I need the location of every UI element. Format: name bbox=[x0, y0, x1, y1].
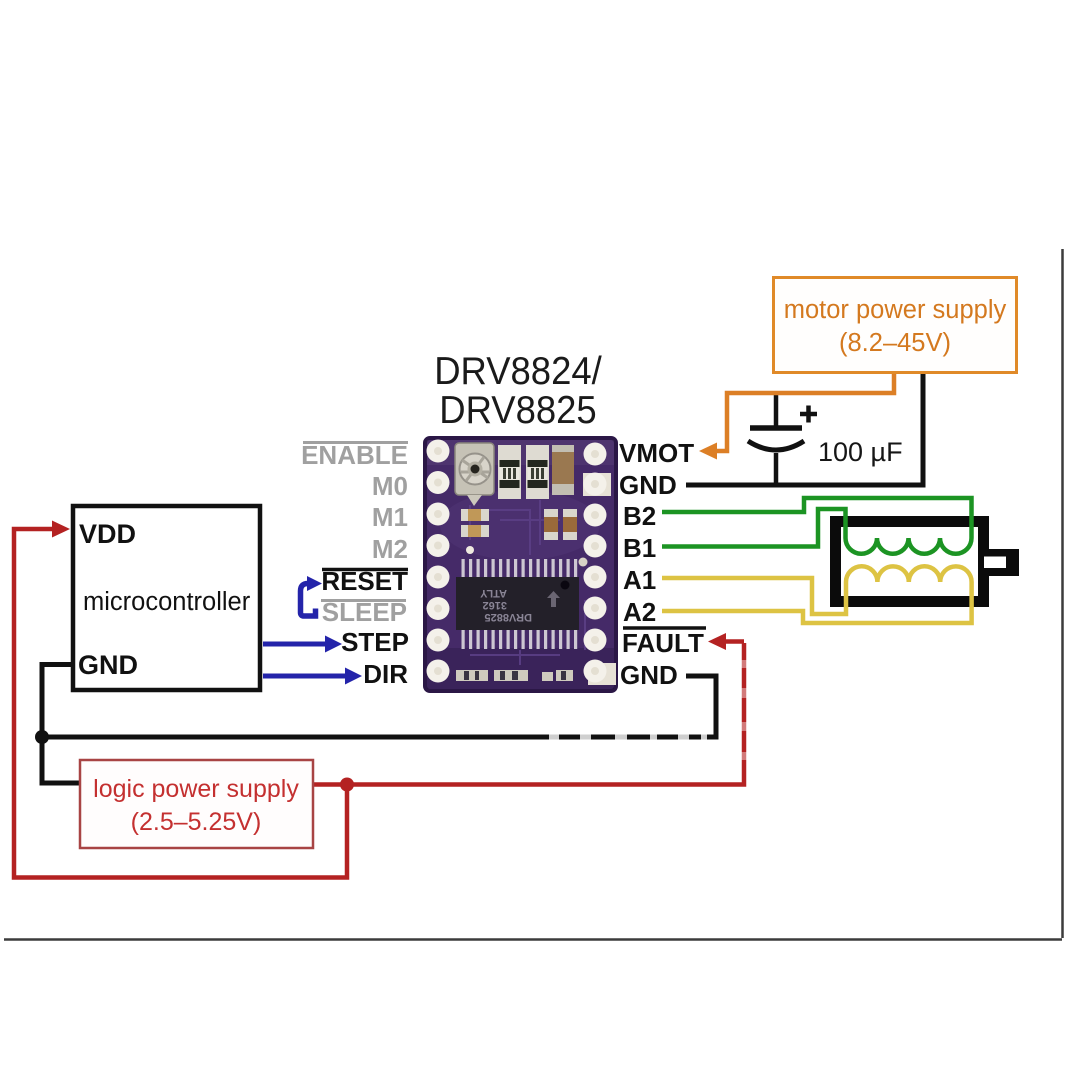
wire: red logic V+ from logic box to FAULT bbox=[14, 529, 744, 878]
wire: orange VMOT from motor supply bbox=[712, 373, 894, 451]
wire: blue DIR bbox=[263, 674, 349, 679]
resistor R2 (current sense) bbox=[526, 445, 549, 499]
watermark breakage on GND bus bbox=[549, 732, 707, 743]
watermark breakage on red riser bbox=[740, 660, 749, 760]
wire: long GND bus bbox=[42, 676, 716, 737]
red arrow into VDD bbox=[52, 521, 70, 538]
svg-text:B1: B1 bbox=[623, 533, 656, 563]
left pad column bbox=[427, 440, 450, 683]
microcontroller box bbox=[73, 506, 260, 690]
svg-text:A1: A1 bbox=[623, 565, 656, 595]
svg-text:VDD: VDD bbox=[79, 519, 136, 549]
stepper motor body bbox=[836, 522, 984, 602]
pin labels right column bbox=[619, 438, 706, 690]
node red junction bbox=[340, 778, 354, 792]
svg-text:GND: GND bbox=[619, 470, 677, 500]
svg-text:(2.5–5.25V): (2.5–5.25V) bbox=[131, 808, 262, 836]
svg-text:B2: B2 bbox=[623, 501, 656, 531]
logic power supply box bbox=[80, 760, 313, 848]
wire: motor supply negative to GND pin bbox=[686, 373, 923, 485]
svg-text:100 µF: 100 µF bbox=[818, 437, 903, 467]
svg-text:VMOT: VMOT bbox=[619, 438, 694, 468]
wire: red branch down-around-left to VDD bbox=[14, 529, 347, 878]
motor shaft bbox=[989, 549, 1019, 576]
IC U1 bottom pins bbox=[462, 630, 578, 649]
capacitor C2 (bulk SMD) bbox=[552, 445, 574, 495]
bottom edge pads bbox=[456, 670, 573, 681]
IC U1 body bbox=[456, 577, 579, 630]
pin labels left column bbox=[301, 440, 409, 689]
capacitor C1 100uF bbox=[748, 393, 817, 485]
svg-text:(8.2–45V): (8.2–45V) bbox=[839, 329, 951, 357]
faint traces bbox=[470, 500, 585, 665]
photo frame right edge bbox=[1061, 249, 1064, 938]
svg-text:STEP: STEP bbox=[341, 627, 409, 657]
svg-text:3162: 3162 bbox=[483, 599, 507, 611]
svg-text:A2: A2 bbox=[623, 597, 656, 627]
DRV8825 carrier board bbox=[425, 438, 616, 691]
motor power supply box bbox=[774, 278, 1017, 373]
orange arrow into VMOT bbox=[699, 443, 717, 460]
small resistor pair bbox=[461, 509, 489, 521]
title DRV8824/DRV8825 bbox=[434, 349, 602, 431]
right pad column bbox=[583, 443, 616, 686]
svg-text:ATLY: ATLY bbox=[479, 587, 507, 599]
svg-text:M1: M1 bbox=[372, 502, 408, 532]
IC U1 top pins bbox=[462, 559, 578, 578]
svg-text:M2: M2 bbox=[372, 534, 408, 564]
via dots bbox=[466, 546, 474, 554]
wire: blue STEP bbox=[263, 642, 329, 647]
potentiometer bbox=[455, 443, 494, 495]
wire: black GND micro to logic supply bbox=[42, 373, 923, 783]
svg-text:motor power supply: motor power supply bbox=[784, 296, 1007, 324]
svg-text:DRV8825: DRV8825 bbox=[485, 611, 533, 623]
svg-text:DRV8825: DRV8825 bbox=[439, 388, 596, 431]
wire: blue RESET-SLEEP jumper bbox=[301, 584, 316, 617]
wire: green B1 + coil B + green B2 bbox=[662, 498, 972, 554]
svg-text:GND: GND bbox=[620, 660, 678, 690]
svg-text:DRV8824/: DRV8824/ bbox=[434, 349, 602, 392]
svg-text:DIR: DIR bbox=[363, 659, 408, 689]
svg-text:ENABLE: ENABLE bbox=[301, 440, 408, 470]
node black junction bbox=[35, 730, 49, 744]
svg-text:microcontroller: microcontroller bbox=[83, 588, 251, 616]
red arrow into FAULT bbox=[708, 633, 726, 650]
svg-text:FAULT: FAULT bbox=[622, 628, 704, 658]
wire: yellow A1 + coil A + yellow A2 bbox=[662, 566, 972, 623]
small capacitor pair bbox=[544, 509, 558, 540]
photo frame bottom edge bbox=[4, 938, 1062, 941]
resistor R1 (current sense) bbox=[498, 445, 521, 499]
svg-text:logic power supply: logic power supply bbox=[93, 775, 299, 803]
svg-text:GND: GND bbox=[78, 650, 138, 680]
svg-text:M0: M0 bbox=[372, 471, 408, 501]
